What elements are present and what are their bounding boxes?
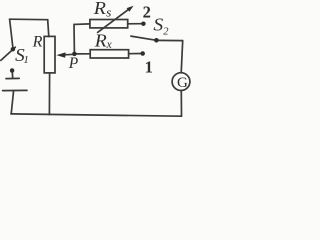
svg-text:s: s xyxy=(106,5,111,19)
wire bottom rail xyxy=(11,114,182,116)
wire top xyxy=(10,19,49,36)
wire left rail xyxy=(10,19,13,48)
svg-text:1: 1 xyxy=(23,54,29,66)
wire battery to bottom rail xyxy=(11,91,13,114)
node 1 contact xyxy=(140,51,145,56)
svg-text:1: 1 xyxy=(145,57,153,76)
svg-text:2: 2 xyxy=(163,27,169,38)
wire R bottom lead xyxy=(48,73,50,115)
svg-text:R: R xyxy=(93,0,106,18)
wire S2 to right rail xyxy=(156,39,182,41)
wiper arrow shaft xyxy=(65,53,75,56)
wire right rail lower xyxy=(180,91,182,117)
svg-text:x: x xyxy=(106,39,113,51)
resistor Rs box xyxy=(90,20,128,28)
node S1 top terminal xyxy=(11,47,16,52)
wire Rx left lead xyxy=(74,53,90,55)
node S1 bottom terminal xyxy=(10,68,15,73)
svg-text:2: 2 xyxy=(143,2,151,21)
battery plate short xyxy=(6,77,19,79)
node S2 pivot xyxy=(154,38,159,43)
Rs arrow head xyxy=(127,6,134,12)
galvanometer G circle xyxy=(172,73,190,91)
svg-text:R: R xyxy=(32,33,43,50)
resistor Rs variable arrow xyxy=(98,9,130,33)
resistor R box xyxy=(44,36,55,73)
node 2 contact xyxy=(141,21,146,26)
svg-text:P: P xyxy=(68,55,79,72)
svg-text:S: S xyxy=(153,15,163,35)
resistor Rx box xyxy=(90,50,128,58)
switch S2 blade xyxy=(131,36,157,40)
wire right rail upper xyxy=(181,41,183,73)
svg-text:R: R xyxy=(94,30,107,50)
wiper arrow head xyxy=(56,52,65,57)
wire S1 to battery xyxy=(11,71,14,79)
switch S1 blade xyxy=(1,47,16,60)
wire Rx right lead xyxy=(129,53,141,55)
battery plate long xyxy=(3,89,27,91)
svg-text:G: G xyxy=(177,75,188,91)
wire Rs right lead xyxy=(128,23,142,25)
wire wiper rail xyxy=(74,24,90,52)
node P junction xyxy=(72,52,77,57)
